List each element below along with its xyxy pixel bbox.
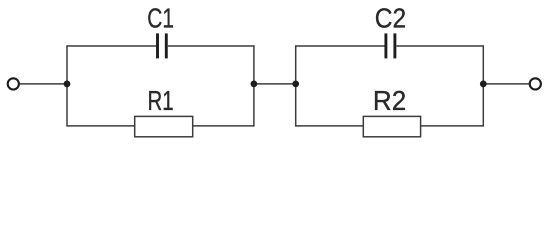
svg-text:C1: C1 — [147, 3, 174, 34]
svg-text:C2: C2 — [375, 3, 406, 34]
svg-text:R2: R2 — [373, 85, 406, 116]
svg-text:R1: R1 — [148, 85, 174, 116]
